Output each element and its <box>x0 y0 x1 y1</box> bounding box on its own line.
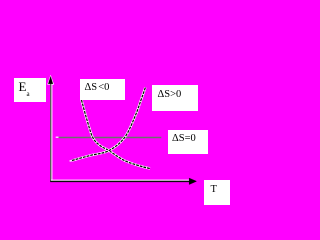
text ΔS<0 <box>85 82 110 93</box>
curve ΔS>0 white halo <box>72 88 145 161</box>
white lead tick at start of ΔS>0 curve <box>70 160 73 162</box>
text Ea <box>19 80 30 101</box>
curve ΔS<0 white halo <box>82 100 151 169</box>
curve ΔS>0 (ascending) <box>72 88 145 161</box>
label box ΔS<0 <box>80 79 126 100</box>
curve ΔS<0 (descending) <box>82 100 151 169</box>
label box Ea <box>14 78 46 102</box>
text T <box>211 184 217 195</box>
gray reference line to ΔS=0 box <box>59 137 162 139</box>
y-axis arrowhead <box>48 76 53 83</box>
x-axis shaft <box>50 180 190 182</box>
label box T <box>204 180 230 205</box>
y-axis shaft <box>50 82 52 182</box>
label box ΔS=0 <box>168 130 208 154</box>
x-axis white fringe <box>51 179 189 181</box>
white tick at start of gray line <box>56 136 59 138</box>
y-axis arrowhead white halo <box>47 75 54 85</box>
label box ΔS>0 <box>152 85 198 111</box>
x-axis arrowhead <box>189 178 196 184</box>
text ΔS=0 <box>172 133 196 144</box>
text ΔS>0 <box>158 89 182 100</box>
y-axis white fringe <box>51 84 53 181</box>
